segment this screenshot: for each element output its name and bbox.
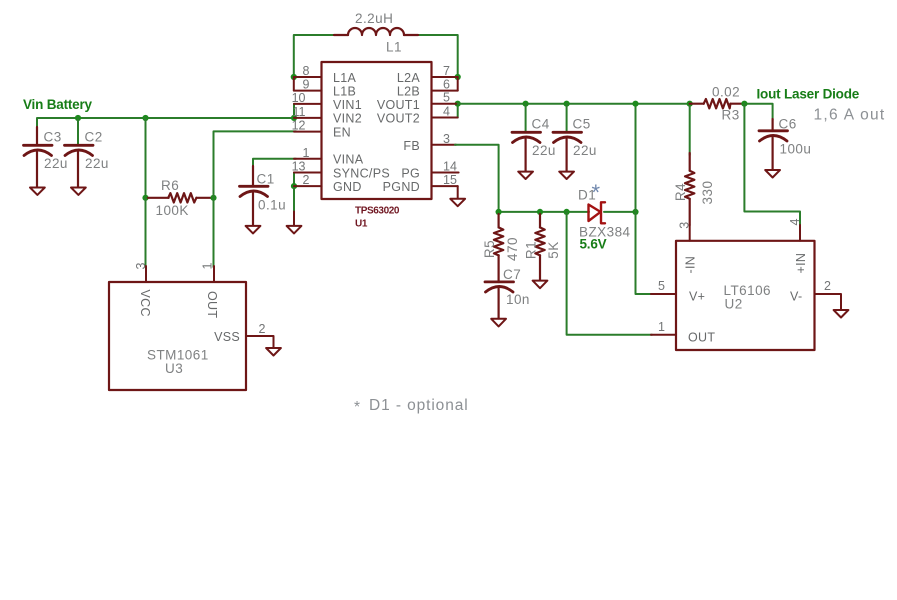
junction dot pin7	[455, 74, 461, 80]
wire input rail VIN	[37, 118, 294, 145]
wire inductor right	[416, 35, 458, 77]
ground under U3 pin2	[266, 348, 281, 356]
wire R4 top	[689, 104, 691, 155]
resistor R4	[685, 153, 694, 225]
svg-text:*: *	[354, 399, 360, 416]
wire pin5 to pin4	[457, 104, 459, 118]
pin 9 stub	[294, 90, 322, 92]
pin 1 stub U2 OUT	[651, 334, 676, 336]
junction dot C5	[564, 101, 570, 107]
ground under pin2	[287, 226, 302, 234]
svg-text:C4: C4	[532, 117, 550, 132]
pin 6 stub	[432, 90, 458, 92]
svg-text:1: 1	[303, 146, 310, 160]
svg-text:L2B: L2B	[397, 84, 420, 98]
svg-text:EN: EN	[333, 125, 351, 139]
junction dot pin5	[455, 101, 461, 107]
junction dot D1 cathode	[632, 209, 638, 215]
svg-text:5.6V: 5.6V	[580, 237, 607, 252]
junction dot R5 top	[496, 209, 502, 215]
junction dot R3 right	[741, 101, 747, 107]
svg-text:R3: R3	[722, 108, 740, 123]
svg-text:V-: V-	[790, 290, 802, 304]
capacitor C5	[553, 104, 582, 171]
zener diode D1	[589, 202, 606, 223]
svg-text:OUT: OUT	[205, 291, 219, 318]
wire pin8 to pin9	[293, 77, 295, 91]
svg-text:3: 3	[443, 132, 450, 146]
svg-text:U1: U1	[355, 219, 368, 230]
pin 3 stub U3 VCC	[145, 266, 147, 282]
pin 3 stub U2 -IN	[689, 225, 691, 241]
wire pin13 to pin2	[293, 173, 295, 187]
ground under C2	[71, 188, 86, 195]
svg-text:U3: U3	[165, 361, 183, 376]
svg-text:470: 470	[505, 237, 520, 261]
svg-text:FB: FB	[403, 139, 420, 153]
svg-text:1,6 A out: 1,6 A out	[814, 107, 886, 124]
svg-text:Iout Laser Diode: Iout Laser Diode	[757, 87, 860, 102]
svg-text:0.02: 0.02	[712, 85, 740, 100]
svg-text:R5: R5	[482, 240, 497, 258]
svg-text:-IN: -IN	[683, 256, 697, 274]
ground under C3	[30, 188, 45, 195]
pin 8 stub	[294, 76, 322, 78]
svg-text:C1: C1	[257, 172, 275, 187]
svg-text:C5: C5	[573, 117, 591, 132]
junction dot rail/R6 branch	[142, 115, 148, 121]
svg-text:L1: L1	[386, 40, 402, 55]
ic U3 STM1061 box	[109, 282, 246, 390]
svg-text:13: 13	[292, 160, 306, 174]
svg-text:+IN: +IN	[794, 253, 808, 274]
junction dot R6 right	[210, 195, 216, 201]
capacitor C1	[240, 166, 269, 225]
wire GND pin2 down	[293, 186, 295, 211]
wire pin10 to pin11	[293, 104, 295, 118]
svg-text:C6: C6	[779, 117, 797, 132]
wire pin15 down to ground	[457, 186, 459, 198]
resistor R1	[535, 214, 544, 280]
svg-text:2: 2	[303, 173, 310, 187]
resistor R5	[494, 214, 503, 282]
wire rail down to R6 left	[145, 118, 147, 198]
pin 12 stub	[294, 131, 322, 133]
svg-text:2.2uH: 2.2uH	[355, 11, 393, 26]
pin 10 stub	[294, 103, 322, 105]
svg-text:1: 1	[658, 320, 665, 334]
capacitor C7	[485, 282, 514, 319]
pin 1 stub	[294, 158, 322, 160]
svg-text:22u: 22u	[573, 143, 597, 158]
svg-text:5: 5	[443, 91, 450, 105]
pin 15 stub	[432, 185, 458, 187]
svg-text:VOUT1: VOUT1	[377, 98, 420, 112]
junction dot V+ rail	[632, 101, 638, 107]
resistor R3	[690, 99, 745, 108]
svg-text:VIN1: VIN1	[333, 98, 362, 112]
wire output rail VOUT	[458, 103, 690, 105]
svg-text:VCC: VCC	[138, 290, 152, 317]
svg-text:R6: R6	[161, 178, 179, 193]
wire VINA net	[253, 159, 296, 168]
ground under pin15	[450, 199, 465, 206]
junction dot R4 top	[687, 101, 693, 107]
wire V+ branch	[636, 104, 653, 294]
svg-text:VSS: VSS	[214, 330, 240, 344]
junction dot OUT branch	[564, 209, 570, 215]
pin 4 stub U2 +IN	[799, 225, 801, 241]
ground under C1	[246, 226, 261, 234]
pin 5 stub	[432, 103, 458, 105]
wire rail after R3	[744, 104, 772, 120]
wire OUT branch	[567, 212, 652, 335]
pin 5 stub U2 V+	[651, 293, 676, 295]
svg-text:*: *	[592, 180, 601, 205]
svg-text:4: 4	[788, 218, 802, 225]
svg-text:OUT: OUT	[688, 330, 715, 344]
capacitor C6	[759, 119, 788, 170]
svg-text:R4: R4	[673, 183, 688, 201]
wire FB lower rail right	[604, 211, 636, 213]
svg-text:V+: V+	[689, 290, 705, 304]
wire R6 left down to U3 VCC	[145, 198, 147, 267]
svg-text:GND: GND	[333, 180, 362, 194]
svg-text:SYNC/PS: SYNC/PS	[333, 166, 390, 180]
svg-text:8: 8	[303, 64, 310, 78]
junction dot pin8	[291, 74, 297, 80]
pin 1 stub U3 OUT	[213, 266, 215, 282]
svg-text:VOUT2: VOUT2	[377, 112, 420, 126]
capacitor C2	[65, 118, 94, 187]
svg-text:2: 2	[259, 322, 266, 336]
svg-text:Vin Battery: Vin Battery	[23, 97, 93, 112]
ground under C6	[765, 170, 780, 178]
svg-text:0.1u: 0.1u	[258, 198, 286, 213]
wire EN net	[214, 131, 297, 197]
svg-text:R1: R1	[523, 241, 538, 259]
pin 2 stub U2 V-	[815, 294, 842, 310]
svg-text:5: 5	[658, 279, 665, 293]
wire FB net	[455, 145, 499, 212]
junction dot C4	[523, 101, 529, 107]
ic U1 TPS63020 box	[322, 62, 432, 199]
inductor L1	[334, 28, 418, 35]
svg-text:D1 - optional: D1 - optional	[369, 397, 469, 414]
junction dot R1 top	[537, 209, 543, 215]
svg-text:1: 1	[201, 262, 215, 269]
svg-text:6: 6	[443, 78, 450, 92]
svg-text:C2: C2	[85, 130, 103, 145]
junction dot pin11	[291, 115, 297, 121]
wire pin7 to pin6	[457, 77, 459, 91]
junction dot C2/rail	[75, 115, 81, 121]
svg-text:TPS63020: TPS63020	[355, 206, 400, 217]
svg-text:U2: U2	[725, 296, 743, 311]
svg-text:3: 3	[134, 262, 148, 269]
svg-text:22u: 22u	[532, 143, 556, 158]
pin 4 stub	[432, 117, 458, 119]
junction dot GND pin2	[291, 183, 297, 189]
svg-text:PG: PG	[401, 166, 420, 180]
svg-text:100K: 100K	[156, 203, 189, 218]
wire FB lower rail left	[499, 211, 589, 213]
svg-text:5K: 5K	[546, 241, 561, 258]
pin 14 stub	[432, 172, 459, 174]
svg-text:VIN2: VIN2	[333, 112, 362, 126]
svg-text:15: 15	[443, 173, 457, 187]
capacitor C3	[24, 127, 53, 187]
pin 13 stub	[294, 172, 322, 174]
svg-text:L2A: L2A	[397, 71, 421, 85]
pin 3 stub FB	[432, 144, 457, 146]
svg-text:C7: C7	[503, 267, 521, 282]
svg-text:PGND: PGND	[383, 180, 420, 194]
pin 2 stub	[294, 185, 322, 187]
ground under U2 pin2	[834, 310, 849, 318]
svg-text:22u: 22u	[44, 156, 68, 171]
svg-text:14: 14	[443, 160, 457, 174]
svg-text:7: 7	[443, 64, 450, 78]
svg-text:100u: 100u	[780, 142, 812, 157]
svg-text:C3: C3	[44, 130, 62, 145]
svg-text:330: 330	[700, 181, 715, 205]
resistor R6	[148, 193, 211, 202]
capacitor C4	[512, 104, 541, 171]
ic U2 LT6106 box	[676, 241, 815, 350]
pin 7 stub	[432, 76, 458, 78]
ground under C7	[491, 319, 506, 327]
junction dot R6 left	[142, 195, 148, 201]
svg-text:2: 2	[824, 279, 831, 293]
wire +IN branch	[744, 104, 800, 226]
pin 11 stub	[294, 117, 322, 119]
wire R6 right down to U3 OUT	[213, 198, 215, 267]
svg-text:3: 3	[677, 222, 691, 229]
svg-text:10n: 10n	[506, 292, 530, 307]
svg-text:10: 10	[292, 91, 306, 105]
svg-text:L1A: L1A	[333, 71, 357, 85]
ground under R1	[533, 281, 548, 289]
svg-text:4: 4	[443, 105, 450, 119]
svg-text:VINA: VINA	[333, 153, 364, 167]
svg-text:L1B: L1B	[333, 84, 356, 98]
svg-text:9: 9	[303, 78, 310, 92]
svg-text:12: 12	[292, 119, 306, 133]
wire inductor left	[294, 35, 336, 77]
ground under C5	[559, 172, 574, 179]
svg-text:22u: 22u	[85, 156, 109, 171]
svg-text:11: 11	[293, 105, 306, 119]
ground under C4	[518, 172, 533, 179]
pin 2 stub U3 VSS	[246, 336, 274, 348]
